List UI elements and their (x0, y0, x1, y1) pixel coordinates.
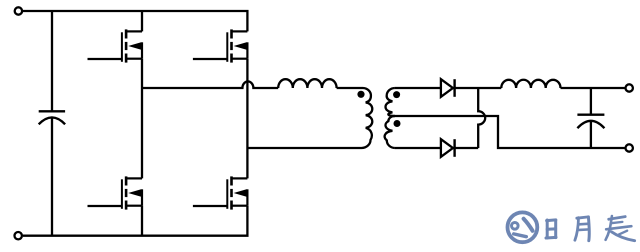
logo bottom stroke (514, 234, 527, 237)
output terminal bottom-right (626, 144, 633, 151)
capacitor C-out (577, 88, 604, 148)
wire L1 to transformer primary (337, 87, 363, 89)
capacitor C-in (39, 111, 65, 235)
logo emblem and characters (508, 212, 635, 242)
transformer T1 primary winding (362, 88, 373, 148)
dot secondary bottom polarity (394, 120, 401, 127)
wire center tap line with corner down to bottom output rail (391, 116, 625, 148)
wire left bridge leg Q1 source to Q3 drain (141, 59, 143, 179)
output terminal top-right (626, 84, 633, 91)
wire B primary bottom to right bridge leg (247, 147, 361, 149)
logo inner small ring (512, 223, 519, 230)
wire bottom rail with corner up to Q4 source (23, 206, 247, 236)
wire secondary bottom through diode D2 to cathode junction (395, 147, 478, 149)
transistor Q3 (bridge bottom-left) (88, 176, 143, 209)
transformer T1 secondary bottom winding (385, 116, 395, 148)
diode D2 (441, 139, 455, 157)
wire bridge midpoint A to inductor L1 with hop over right leg (142, 81, 278, 88)
transistor Q1 (bridge top-left) (88, 29, 143, 62)
diode D1 (441, 79, 455, 97)
inductor L1 (series resonant) (278, 79, 336, 88)
logo character yue (575, 217, 589, 241)
logo character ri (546, 220, 556, 238)
wire right bridge leg Q2 source to Q4 drain (246, 59, 248, 179)
logo outer ring (508, 212, 538, 242)
wire Q3 source to bottom rail (141, 206, 143, 236)
wire rectifier cathode junction vertical with hop over center tap (478, 88, 485, 148)
transistor Q2 (bridge top-right) (193, 29, 248, 62)
wire L2 to output terminal (561, 87, 625, 89)
inductor L2 (output filter) (501, 80, 560, 88)
logo diagonal stroke (524, 219, 533, 231)
wire Q1 drain to top rail (141, 11, 143, 31)
dot primary polarity (357, 91, 364, 98)
wire top rail with corner down to Q2 drain (23, 11, 247, 31)
transistor Q4 (bridge bottom-right) (193, 176, 248, 209)
wire input cap top lead (51, 11, 53, 111)
dot secondary top polarity (393, 91, 400, 98)
input terminal top-left (15, 7, 22, 14)
wire secondary top through diode D1 to junction (395, 87, 501, 89)
logo character chen (606, 216, 635, 241)
input terminal bottom-left (15, 232, 22, 239)
transformer T1 secondary top winding (386, 88, 395, 116)
